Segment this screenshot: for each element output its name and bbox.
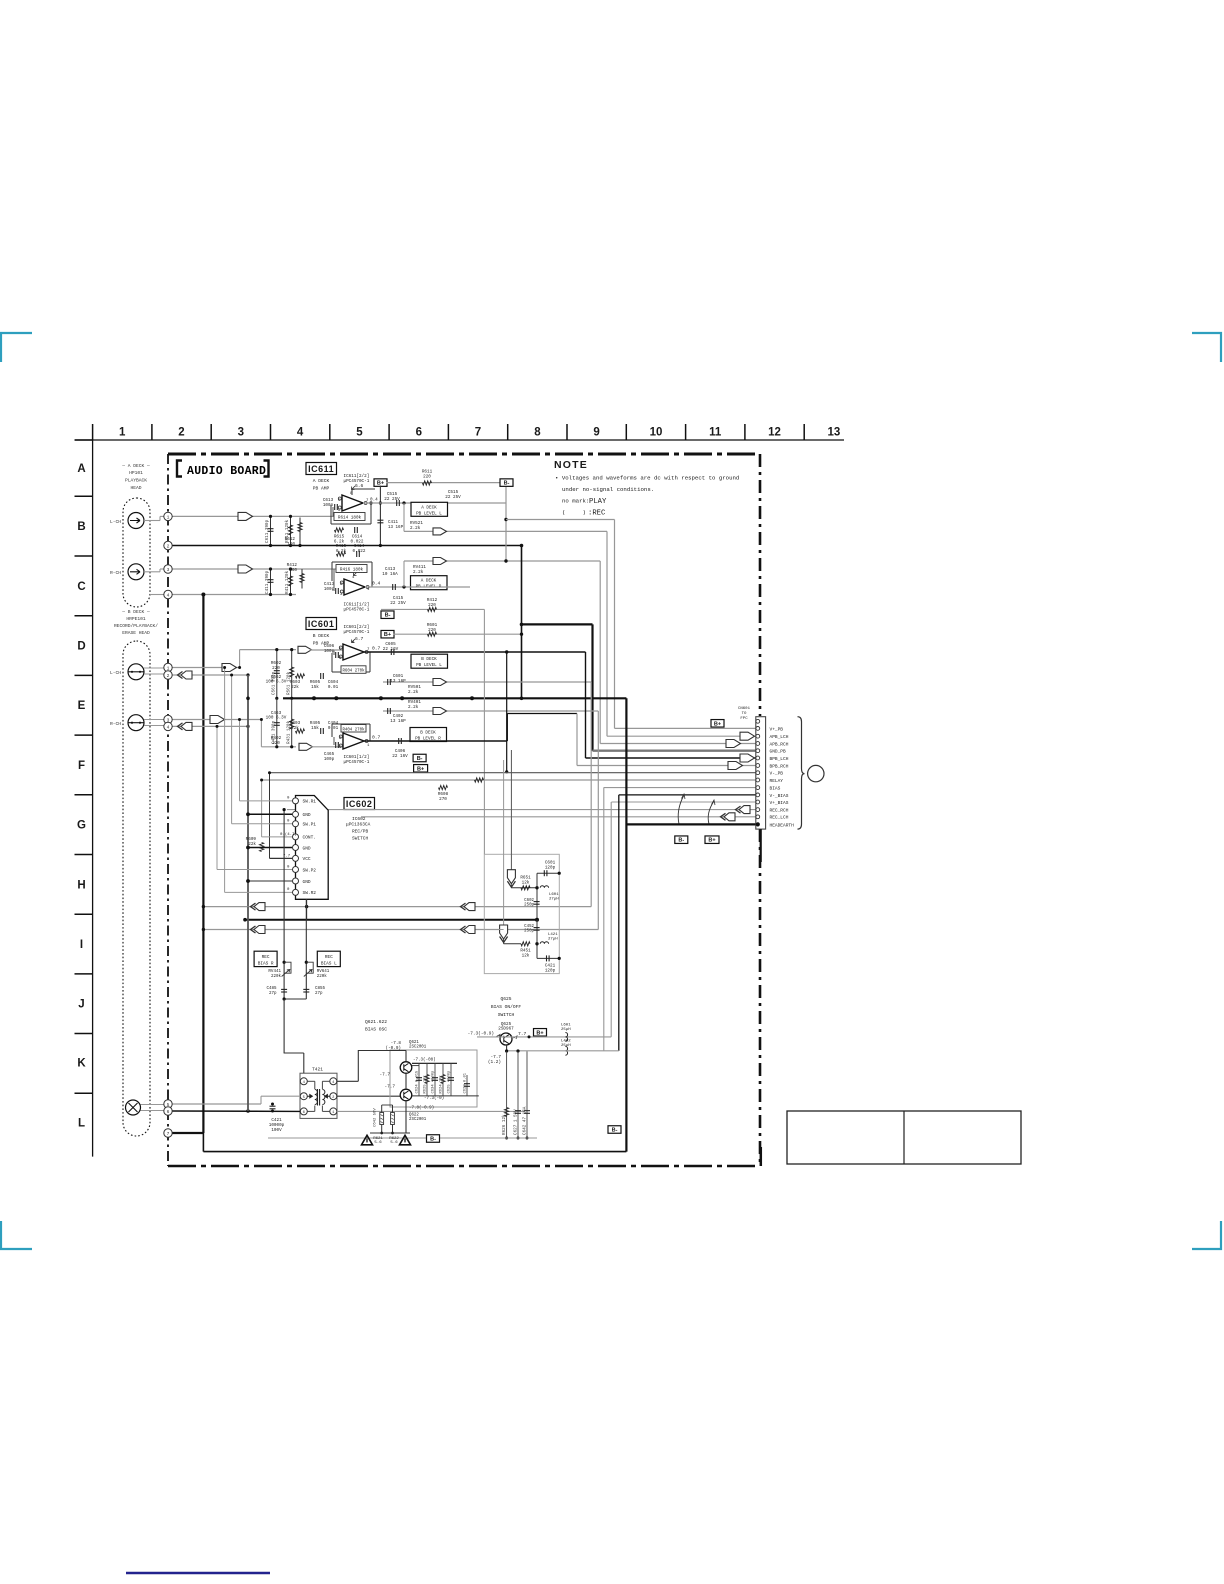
svg-text:B+: B+ (714, 721, 721, 727)
svg-text:C624 0.015: C624 0.015 (416, 1070, 420, 1094)
svg-text:100p: 100p (324, 587, 335, 592)
svg-text:FPC: FPC (740, 717, 748, 721)
svg-text:C628 0.01: C628 0.01 (464, 1072, 468, 1093)
svg-text:13 16P: 13 16P (388, 526, 404, 530)
svg-text:22k: 22k (291, 726, 299, 731)
svg-text:C634 4800p: C634 4800p (432, 1070, 436, 1094)
svg-text:220k: 220k (271, 974, 282, 979)
svg-text:SW.R2: SW.R2 (303, 890, 317, 896)
svg-text:L601: L601 (549, 893, 559, 897)
svg-text:22 16V: 22 16V (383, 647, 399, 652)
svg-text:BIAS ON/OFF: BIAS ON/OFF (491, 1004, 522, 1010)
svg-text:4: 4 (352, 576, 355, 580)
svg-text:L: L (78, 1117, 85, 1129)
svg-text:no mark:: no mark: (562, 498, 589, 505)
svg-text:Q625: Q625 (500, 996, 511, 1002)
svg-text:RV441: RV441 (268, 970, 281, 974)
svg-text:( ): ( ) (562, 509, 586, 516)
svg-text:10: 10 (650, 427, 663, 439)
svg-text:C602: C602 (524, 899, 534, 903)
svg-text:G: G (77, 820, 86, 832)
svg-text:IC602: IC602 (346, 799, 373, 809)
svg-text:C642 47 16A: C642 47 16A (523, 1106, 528, 1135)
svg-text:7: 7 (167, 1131, 170, 1137)
svg-text:6.6: 6.6 (355, 483, 364, 489)
svg-text:13 16P: 13 16P (390, 719, 406, 724)
svg-text:IC602: IC602 (352, 816, 366, 822)
svg-text:μPC4570C-1: μPC4570C-1 (344, 630, 370, 635)
svg-text:2.2k: 2.2k (408, 705, 419, 710)
svg-text:-7.7: -7.7 (379, 1073, 390, 1078)
svg-text:— A DECK —: — A DECK — (121, 463, 150, 469)
svg-text:TO: TO (742, 712, 747, 716)
svg-text:HEAD: HEAD (130, 485, 141, 491)
svg-text:C611 390p: C611 390p (265, 519, 270, 543)
svg-text:2SD967: 2SD967 (498, 1026, 514, 1031)
svg-text:Q621.622: Q621.622 (365, 1019, 387, 1025)
svg-text:H: H (77, 879, 85, 891)
svg-text:0.01: 0.01 (328, 685, 339, 690)
svg-text:15k: 15k (311, 685, 319, 690)
svg-text:AUDIO BOARD: AUDIO BOARD (187, 465, 266, 478)
svg-text:J: J (78, 998, 84, 1010)
svg-text::REC: :REC (588, 510, 606, 518)
svg-text:B+: B+ (536, 1030, 543, 1036)
svg-text:120p: 120p (545, 865, 556, 870)
svg-text:4: 4 (167, 592, 170, 598)
svg-text:R624 1Mk: R624 1Mk (439, 1075, 444, 1094)
svg-text:22 16V: 22 16V (392, 754, 408, 759)
svg-text:GND: GND (303, 879, 311, 885)
svg-text:REC/PB: REC/PB (352, 829, 369, 835)
svg-text:— B DECK —: — B DECK — (121, 609, 150, 615)
svg-text:A: A (77, 463, 85, 475)
svg-text:27μH: 27μH (549, 898, 559, 902)
svg-text:B DECK: B DECK (420, 731, 436, 736)
svg-text:L601: L601 (561, 1024, 571, 1028)
svg-text:3: 3 (238, 427, 244, 439)
svg-text:BIAS L: BIAS L (321, 961, 337, 966)
svg-text:A DECK: A DECK (421, 505, 437, 510)
svg-text:0: 0 (287, 866, 290, 870)
svg-text:VCC: VCC (303, 856, 311, 862)
svg-text:2.2k: 2.2k (413, 570, 424, 575)
svg-text:-7.7: -7.7 (384, 1085, 395, 1090)
svg-text:22 25V: 22 25V (384, 497, 400, 502)
svg-text:NOTE: NOTE (554, 459, 588, 471)
svg-text:120p: 120p (545, 968, 556, 973)
svg-text:L402: L402 (561, 1040, 571, 1044)
svg-text:5: 5 (356, 427, 363, 439)
svg-text:R416 180k: R416 180k (340, 568, 364, 573)
svg-text:R411 120k: R411 120k (285, 570, 290, 594)
svg-text:160: 160 (289, 568, 297, 573)
svg-text:F: F (78, 760, 85, 772)
svg-text:8: 8 (534, 427, 541, 439)
svg-text:2.2k: 2.2k (408, 690, 419, 695)
svg-text:1: 1 (119, 427, 126, 439)
svg-text:1: 1 (167, 514, 170, 520)
svg-text:I: I (80, 939, 83, 951)
svg-text:7: 7 (475, 427, 481, 439)
svg-text:0.4: 0.4 (370, 498, 378, 503)
svg-text:100 6.3V: 100 6.3V (266, 716, 287, 721)
svg-text:-7.3(-08): -7.3(-08) (413, 1058, 436, 1063)
svg-text:6: 6 (416, 427, 422, 439)
svg-text:IC611: IC611 (308, 464, 334, 474)
svg-text:R614 180k: R614 180k (338, 516, 362, 521)
svg-text:0: 0 (287, 797, 290, 801)
svg-text:2SC2001: 2SC2001 (409, 1118, 427, 1122)
svg-text:GND_PB: GND_PB (770, 749, 787, 755)
svg-text:under no-signal conditions.: under no-signal conditions. (562, 486, 654, 493)
svg-text:0: 0 (287, 888, 290, 892)
svg-text:100p: 100p (324, 649, 335, 654)
svg-text:μPC4570C-1: μPC4570C-1 (344, 608, 370, 613)
svg-text:220k: 220k (317, 974, 328, 979)
svg-text:B-: B- (417, 756, 423, 762)
svg-text:HP101: HP101 (129, 470, 143, 476)
svg-text:V+_BIAS: V+_BIAS (770, 800, 789, 806)
svg-text:SW.P2: SW.P2 (303, 867, 317, 873)
svg-text:REC_LCH: REC_LCH (770, 815, 789, 821)
svg-text:-7.3(-0): -7.3(-0) (424, 1096, 444, 1101)
svg-text:25μH: 25μH (561, 1044, 571, 1048)
svg-text:100p: 100p (324, 757, 335, 762)
svg-text:GND: GND (303, 845, 311, 851)
svg-text:BIAS R: BIAS R (258, 961, 274, 966)
svg-text:100p: 100p (323, 503, 334, 508)
svg-text:PLAYBACK: PLAYBACK (125, 478, 147, 484)
svg-text:PB AMP: PB AMP (313, 486, 330, 492)
svg-text:PLAY: PLAY (589, 498, 607, 506)
svg-text:5.6: 5.6 (374, 1141, 382, 1145)
svg-text:RECORD/PLAYBACK/: RECORD/PLAYBACK/ (114, 623, 158, 629)
svg-text:μPC4570C-1: μPC4570C-1 (344, 760, 370, 765)
svg-text:L421: L421 (548, 933, 558, 937)
svg-text:APB_LCH: APB_LCH (770, 734, 789, 740)
svg-text:B+: B+ (708, 838, 715, 844)
svg-text:220: 220 (272, 666, 280, 671)
svg-text:220: 220 (428, 628, 436, 633)
svg-text:C627 1 50V: C627 1 50V (514, 1109, 519, 1135)
svg-text:12k: 12k (522, 880, 530, 885)
svg-text:0: 0 (287, 820, 290, 824)
svg-text:22 25V: 22 25V (390, 601, 406, 606)
svg-text:1: 1 (367, 744, 370, 748)
svg-text:(1.2): (1.2) (488, 1060, 501, 1065)
svg-text:25μH: 25μH (561, 1028, 571, 1032)
svg-text:BIAS: BIAS (770, 786, 781, 792)
svg-text:100 6.3V: 100 6.3V (266, 680, 287, 685)
svg-text:PB LEVEL L: PB LEVEL L (416, 511, 442, 516)
svg-text:SWITCH: SWITCH (352, 836, 369, 842)
svg-text:B DECK: B DECK (421, 657, 437, 662)
svg-text:SW.R1: SW.R1 (303, 799, 317, 805)
svg-text:13: 13 (828, 427, 841, 439)
svg-text:160: 160 (287, 542, 295, 547)
svg-text:R625 18k: R625 18k (423, 1075, 428, 1094)
svg-text:HEADEARTH: HEADEARTH (770, 822, 795, 828)
svg-text:R-CH: R-CH (110, 721, 121, 727)
svg-text:27p: 27p (269, 992, 277, 996)
svg-text:100V: 100V (271, 1128, 282, 1133)
svg-text:11: 11 (709, 427, 722, 439)
svg-text:SWITCH: SWITCH (498, 1012, 515, 1018)
svg-text:220: 220 (428, 603, 436, 608)
svg-text:REC: REC (325, 955, 333, 960)
svg-text:V+_PB: V+_PB (770, 726, 784, 732)
svg-text:• Voltages and waveforms are d: • Voltages and waveforms are dc with res… (555, 475, 739, 482)
svg-text:9: 9 (593, 427, 599, 439)
svg-text:C: C (77, 581, 85, 593)
svg-text:R604 270k: R604 270k (342, 669, 365, 674)
svg-text:0.022: 0.022 (353, 549, 366, 554)
svg-text:7.7: 7.7 (518, 1031, 527, 1037)
svg-text:Q621: Q621 (409, 1041, 419, 1045)
svg-text:ERASE HEAD: ERASE HEAD (122, 630, 150, 636)
svg-text:L-CH: L-CH (110, 519, 121, 525)
svg-text:Q622: Q622 (409, 1114, 419, 1118)
svg-text:CN601: CN601 (738, 707, 751, 711)
svg-text:REC: REC (262, 955, 270, 960)
svg-text:B-: B- (385, 613, 391, 619)
svg-text:L-CH: L-CH (110, 670, 121, 676)
svg-text:15k: 15k (311, 726, 319, 731)
svg-text:BPB_RCH: BPB_RCH (770, 763, 789, 769)
svg-text:R626 12k: R626 12k (502, 1114, 507, 1135)
svg-text:R404 270k: R404 270k (342, 727, 365, 732)
svg-text:B+: B+ (384, 632, 391, 638)
svg-text:B-: B- (430, 1136, 436, 1142)
svg-text:22 25V: 22 25V (445, 495, 461, 500)
svg-text:V-_BIAS: V-_BIAS (770, 793, 789, 799)
svg-text:250p: 250p (524, 930, 534, 934)
svg-text:B+: B+ (417, 766, 424, 772)
svg-text:APB_RCH: APB_RCH (770, 741, 789, 747)
svg-text:A DECK: A DECK (313, 478, 330, 484)
svg-text:-7.3(-0.9): -7.3(-0.9) (468, 1032, 494, 1037)
svg-text:B-: B- (612, 1127, 618, 1133)
svg-text:IC601: IC601 (308, 619, 335, 629)
svg-text:22k: 22k (248, 842, 256, 847)
svg-text:BIAS OSC: BIAS OSC (365, 1027, 387, 1033)
svg-text:4: 4 (167, 724, 170, 730)
svg-text:PB LEVEL L: PB LEVEL L (416, 663, 442, 668)
svg-text:13 16P: 13 16P (390, 679, 406, 684)
svg-text:GND: GND (303, 812, 311, 818)
svg-text:2.2k: 2.2k (410, 526, 421, 531)
svg-text:3: 3 (167, 567, 170, 573)
svg-text:2: 2 (178, 427, 184, 439)
svg-text:C411: C411 (388, 521, 399, 525)
svg-text:4: 4 (297, 427, 304, 439)
svg-text:R-CH: R-CH (110, 570, 121, 576)
svg-text:V-_PB: V-_PB (770, 771, 784, 777)
svg-text:C642 56V: C642 56V (374, 1108, 378, 1127)
svg-text:2SC2001: 2SC2001 (409, 1046, 427, 1050)
svg-text:6.2k: 6.2k (336, 549, 347, 554)
svg-text:E: E (78, 700, 86, 712)
svg-text:B-: B- (678, 838, 684, 844)
svg-text:6: 6 (167, 1109, 170, 1115)
svg-text:D: D (77, 641, 85, 653)
svg-text:2: 2 (167, 673, 170, 679)
svg-text:27p: 27p (315, 992, 323, 996)
svg-text:C485: C485 (266, 987, 277, 991)
svg-text:0.4: 0.4 (372, 581, 381, 587)
svg-text:22k: 22k (291, 685, 299, 690)
svg-text:C625 4800p: C625 4800p (448, 1070, 452, 1094)
svg-text:C411 390p: C411 390p (265, 570, 270, 594)
svg-text:B-: B- (504, 481, 510, 487)
svg-text:0.7: 0.7 (372, 735, 381, 741)
svg-text:5.6: 5.6 (390, 1141, 398, 1145)
svg-text:A DECK: A DECK (421, 579, 437, 584)
svg-text:270: 270 (439, 797, 447, 802)
svg-text:3: 3 (340, 593, 343, 597)
svg-text:K: K (77, 1058, 86, 1070)
svg-text:0.01: 0.01 (328, 726, 339, 731)
svg-text:CONT.: CONT. (303, 835, 317, 841)
svg-text:T421: T421 (312, 1067, 323, 1073)
svg-text:2: 2 (167, 543, 170, 549)
svg-text:-7.8(-0.9): -7.8(-0.9) (409, 1106, 434, 1111)
svg-text:27μH: 27μH (548, 938, 558, 942)
svg-text:μPC1363CA: μPC1363CA (346, 822, 371, 828)
svg-text:0.(4.7): 0.(4.7) (280, 832, 297, 837)
svg-text:1: 1 (367, 588, 370, 592)
svg-text:SW.P1: SW.P1 (303, 822, 317, 828)
svg-text:HRPE101: HRPE101 (126, 616, 146, 622)
svg-text:10 16A: 10 16A (382, 572, 398, 577)
svg-text:BPB_LCH: BPB_LCH (770, 756, 789, 762)
svg-text:C452: C452 (524, 925, 534, 929)
svg-text:250p: 250p (524, 904, 534, 908)
svg-text:C855: C855 (315, 987, 326, 991)
svg-text:0.7: 0.7 (372, 646, 381, 652)
svg-text:B DECK: B DECK (313, 633, 330, 639)
svg-text:12: 12 (768, 427, 781, 439)
svg-text:220: 220 (272, 741, 280, 746)
svg-text:RV641: RV641 (317, 970, 330, 974)
svg-text:220: 220 (423, 474, 431, 479)
svg-text:6.7: 6.7 (355, 636, 364, 642)
svg-text:B: B (77, 521, 85, 533)
svg-text:REC_RCH: REC_RCH (770, 808, 789, 814)
svg-text:12k: 12k (522, 953, 530, 958)
svg-text:RELAY: RELAY (770, 778, 784, 784)
